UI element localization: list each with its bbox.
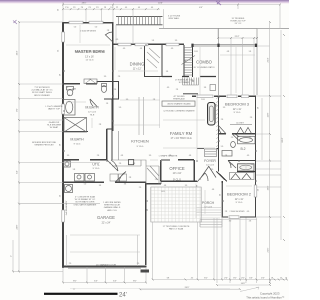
purple corner mark bbox=[13, 1, 221, 24]
svg-text:2'6: 2'6 bbox=[109, 163, 111, 165]
svg-text:14'6": 14'6" bbox=[241, 283, 246, 285]
svg-text:3'6: 3'6 bbox=[258, 107, 260, 109]
svg-text:VENEER PER ELEV: VENEER PER ELEV bbox=[34, 145, 54, 147]
svg-text:B.2: B.2 bbox=[240, 147, 245, 151]
svg-text:2'8: 2'8 bbox=[133, 163, 135, 165]
bath2 toilet and vanity bbox=[222, 142, 235, 157]
bedroom3 bottom wall bbox=[219, 133, 256, 135]
dim bottom line mid bbox=[140, 288, 240, 290]
svg-text:12'8": 12'8" bbox=[268, 112, 270, 117]
porch deck lines bbox=[196, 184, 221, 219]
wire: mbath guides bbox=[66, 102, 92, 128]
wire: combo right edge bbox=[256, 29, 258, 96]
bath2 right wall bbox=[254, 134, 256, 160]
dim left extension horizontals bbox=[19, 22, 100, 272]
svg-text:BEDROOM 2: BEDROOM 2 bbox=[227, 192, 252, 197]
svg-text:3'0: 3'0 bbox=[104, 76, 106, 78]
svg-text:CLOSET: CLOSET bbox=[236, 123, 245, 125]
wire: foyer top wall bbox=[197, 148, 219, 150]
svg-text:3'4: 3'4 bbox=[99, 185, 101, 187]
wire: master right wall going down bbox=[112, 22, 114, 131]
svg-text:6'8: 6'8 bbox=[227, 51, 229, 53]
wire: dining top wall bbox=[113, 43, 185, 45]
svg-text:9' CLG: 9' CLG bbox=[236, 202, 243, 204]
svg-text:4'0: 4'0 bbox=[151, 7, 153, 9]
stairs hatch top middle bbox=[116, 17, 163, 25]
wire: dining guides bbox=[115, 47, 158, 71]
wire: family guides h bbox=[150, 120, 215, 160]
svg-text:12' CLG: 12' CLG bbox=[206, 165, 214, 167]
svg-text:3'6: 3'6 bbox=[204, 87, 206, 89]
svg-text:3'0: 3'0 bbox=[58, 9, 60, 11]
svg-text:BRG WALL: BRG WALL bbox=[169, 17, 181, 20]
svg-text:4x6 BEAM ABV: 4x6 BEAM ABV bbox=[65, 200, 68, 215]
svg-text:4'0: 4'0 bbox=[171, 48, 173, 50]
svg-text:24'0": 24'0" bbox=[185, 287, 190, 289]
svg-text:3'0: 3'0 bbox=[185, 185, 187, 187]
svg-text:1 HR FIRE RATED: 1 HR FIRE RATED bbox=[103, 201, 121, 204]
wire: pantry bottom wall bbox=[144, 76, 162, 78]
svg-text:BRICK VENEER: BRICK VENEER bbox=[34, 95, 50, 97]
svg-text:8'0": 8'0" bbox=[133, 281, 137, 283]
svg-text:2'0: 2'0 bbox=[280, 278, 282, 280]
svg-text:4'0: 4'0 bbox=[167, 87, 169, 89]
svg-text:6'4": 6'4" bbox=[113, 281, 117, 283]
svg-text:3'0": 3'0" bbox=[233, 278, 237, 280]
svg-text:1'6: 1'6 bbox=[285, 278, 287, 280]
svg-text:12' x 11': 12' x 11' bbox=[233, 108, 242, 111]
wire: family rm guide vertical 2 bbox=[197, 47, 200, 160]
svg-text:5'4: 5'4 bbox=[249, 51, 251, 53]
window bedroom3 top bbox=[227, 95, 237, 98]
svg-text:44'6": 44'6" bbox=[158, 2, 163, 4]
svg-text:GARAGE WALLS: GARAGE WALLS bbox=[104, 206, 121, 209]
svg-text:24" OC: 24" OC bbox=[235, 23, 242, 25]
svg-text:2'8: 2'8 bbox=[88, 7, 90, 9]
wire: bed2 south overhang bbox=[222, 218, 257, 220]
svg-text:W/ SEAT: W/ SEAT bbox=[50, 126, 59, 129]
foyer wall hatch bbox=[216, 97, 218, 151]
door master entry bbox=[105, 32, 113, 42]
svg-text:4'0: 4'0 bbox=[231, 164, 233, 166]
bedroom2 bottom wall bbox=[222, 216, 256, 218]
svg-text:2'8: 2'8 bbox=[73, 7, 75, 9]
svg-text:12' x 11': 12' x 11' bbox=[235, 198, 244, 201]
svg-text:2'2: 2'2 bbox=[116, 7, 118, 9]
svg-text:4" CONCRETE SLAB: 4" CONCRETE SLAB bbox=[75, 196, 96, 199]
dim garage internal bbox=[67, 235, 138, 266]
window bedroom2 bottom bbox=[229, 216, 239, 219]
svg-text:19'0": 19'0" bbox=[268, 185, 270, 190]
kitchen oven box bbox=[129, 160, 134, 165]
svg-text:M.BATH: M.BATH bbox=[70, 138, 84, 142]
svg-text:3'0: 3'0 bbox=[211, 169, 213, 171]
svg-text:SHEETROCK AT: SHEETROCK AT bbox=[104, 204, 121, 207]
svg-text:2'8: 2'8 bbox=[199, 179, 201, 181]
svg-text:24'8": 24'8" bbox=[17, 224, 19, 229]
window master top 2 bbox=[89, 21, 103, 24]
svg-text:4'0: 4'0 bbox=[247, 155, 249, 157]
washer dryer in util bbox=[75, 174, 95, 182]
svg-text:24': 24' bbox=[119, 292, 127, 298]
svg-text:BEDROOM 3: BEDROOM 3 bbox=[225, 102, 250, 107]
svg-text:2'8: 2'8 bbox=[99, 124, 101, 126]
door util to garage bbox=[115, 172, 126, 183]
wire: garage bottom wall bbox=[62, 266, 146, 268]
rotated left tiny dims bbox=[58, 9, 260, 211]
door bedroom2 bbox=[228, 161, 236, 169]
svg-text:3'6: 3'6 bbox=[60, 74, 62, 76]
bedroom2 right wall bbox=[254, 160, 256, 218]
svg-text:2'0: 2'0 bbox=[231, 137, 233, 139]
svg-text:8'0": 8'0" bbox=[73, 281, 77, 283]
svg-text:L 19x75 GRANITE: L 19x75 GRANITE bbox=[45, 105, 63, 108]
svg-text:FAMILY RM: FAMILY RM bbox=[170, 131, 193, 136]
svg-text:2'8: 2'8 bbox=[153, 99, 155, 101]
svg-text:1'8: 1'8 bbox=[68, 95, 70, 97]
dim top right line bbox=[218, 37, 257, 39]
svg-text:4'0: 4'0 bbox=[60, 195, 62, 197]
svg-text:FOYER: FOYER bbox=[204, 159, 216, 163]
fireplace bbox=[208, 103, 215, 126]
svg-text:AND CLG: AND CLG bbox=[107, 209, 117, 212]
bedroom2 top wall bbox=[228, 160, 256, 162]
door front entry bbox=[197, 173, 208, 182]
svg-text:5'0: 5'0 bbox=[115, 166, 117, 168]
svg-text:3'0: 3'0 bbox=[223, 107, 225, 109]
svg-text:FIREPLACE: FIREPLACE bbox=[173, 98, 185, 101]
svg-text:KITCHEN: KITCHEN bbox=[131, 139, 149, 144]
svg-text:10' x 10': 10' x 10' bbox=[173, 172, 182, 175]
window mbath left bbox=[62, 104, 65, 114]
svg-text:2'0: 2'0 bbox=[89, 79, 91, 81]
svg-text:M.BATH: M.BATH bbox=[85, 106, 99, 110]
svg-text:6'4": 6'4" bbox=[94, 281, 98, 283]
window family north sliding bbox=[197, 95, 213, 98]
svg-text:5'0: 5'0 bbox=[74, 27, 76, 29]
dim right vertical 3 bbox=[261, 98, 263, 160]
svg-text:6'0: 6'0 bbox=[247, 211, 249, 213]
svg-text:2 6040 SH WDWS: 2 6040 SH WDWS bbox=[80, 31, 96, 33]
dim bottom line right bbox=[153, 279, 287, 281]
svg-text:48x96 GRANITE ISLAND: 48x96 GRANITE ISLAND bbox=[167, 103, 191, 106]
svg-text:6'4": 6'4" bbox=[17, 170, 19, 174]
dim garage verticals bbox=[63, 267, 146, 283]
svg-text:3'0: 3'0 bbox=[175, 40, 177, 42]
wire: combo left edge bbox=[218, 29, 220, 96]
svg-text:4'0: 4'0 bbox=[125, 7, 127, 9]
wc left toilet bbox=[67, 87, 74, 96]
wire: patio beam edge bbox=[192, 45, 257, 46]
svg-text:2'0: 2'0 bbox=[66, 87, 68, 89]
svg-text:3'0: 3'0 bbox=[229, 221, 231, 223]
svg-text:GLASS DR: GLASS DR bbox=[49, 121, 60, 124]
wire: foyer right wall stub bbox=[194, 180, 197, 182]
svg-text:BOTH WAYS OVER: BOTH WAYS OVER bbox=[76, 201, 95, 204]
pantry shelves diagonals bbox=[147, 48, 160, 68]
family north wall long bbox=[162, 76, 216, 78]
svg-text:2'8: 2'8 bbox=[96, 7, 98, 9]
svg-text:5'4: 5'4 bbox=[152, 40, 154, 42]
svg-text:4'6": 4'6" bbox=[261, 278, 265, 280]
svg-text:This artistic board of Hamilto: This artistic board of Hamilton™ bbox=[246, 296, 285, 300]
bed2 entry tub niche bbox=[237, 164, 255, 172]
window dining top 1 bbox=[118, 43, 131, 46]
wire: garage door line bbox=[68, 267, 141, 269]
svg-text:GARAGE: GARAGE bbox=[97, 215, 115, 220]
dim bottom line right2 bbox=[217, 284, 270, 286]
stairs lower landing treads bbox=[183, 78, 199, 86]
svg-text:2 3040 SH WDWS: 2 3040 SH WDWS bbox=[230, 211, 246, 213]
util landing steps bbox=[110, 174, 127, 181]
svg-text:13' x 16': 13' x 16' bbox=[85, 56, 94, 59]
svg-text:9' CLG: 9' CLG bbox=[137, 146, 144, 148]
dim bottom line garage bbox=[63, 282, 146, 284]
svg-text:4'2: 4'2 bbox=[191, 278, 193, 280]
porch front steps bbox=[200, 220, 222, 228]
svg-text:14'0: 14'0 bbox=[161, 191, 165, 193]
scale bar bbox=[44, 293, 118, 295]
svg-text:2'8: 2'8 bbox=[60, 144, 62, 146]
scale tick bbox=[70, 288, 230, 290]
svg-text:12' CLG: 12' CLG bbox=[88, 112, 96, 114]
svg-text:MASTER BDRM: MASTER BDRM bbox=[75, 49, 105, 54]
svg-text:4'4: 4'4 bbox=[138, 7, 140, 9]
dim right vertical 2 bbox=[280, 30, 282, 240]
svg-text:12' CLG: 12' CLG bbox=[86, 60, 94, 62]
wire: kitchen nook wall jog bbox=[107, 129, 113, 160]
svg-text:2'8: 2'8 bbox=[169, 155, 171, 157]
svg-text:OFFICE: OFFICE bbox=[169, 166, 185, 171]
foyer angled wall bbox=[217, 172, 228, 182]
svg-text:5'0: 5'0 bbox=[221, 146, 223, 148]
svg-text:2'6: 2'6 bbox=[118, 76, 120, 78]
door bath2 bbox=[232, 134, 239, 141]
svg-text:10 TREADS: 10 TREADS bbox=[179, 81, 191, 84]
dim left vertical line bbox=[18, 22, 20, 272]
stairs middle vertical flight bbox=[182, 45, 196, 77]
svg-text:DINING: DINING bbox=[130, 61, 145, 66]
window bed2 right bbox=[254, 185, 257, 197]
svg-text:22'4": 22'4" bbox=[268, 57, 270, 62]
svg-text:5'0: 5'0 bbox=[84, 184, 86, 186]
bedroom3 left wall bbox=[218, 96, 220, 134]
wire: garage right wall bbox=[145, 182, 147, 265]
niche box bbox=[210, 85, 216, 91]
door util to kitchen bbox=[107, 160, 118, 171]
svg-text:2x4 WALLS AT 16" OC: 2x4 WALLS AT 16" OC bbox=[31, 89, 53, 92]
svg-text:3'4": 3'4" bbox=[249, 278, 253, 280]
wire: eave line lower bbox=[159, 27, 289, 29]
svg-text:9' CLG: 9' CLG bbox=[93, 168, 100, 170]
window dining top 2 bbox=[135, 43, 148, 46]
svg-text:17' x 19' TRAY CLG: 17' x 19' TRAY CLG bbox=[170, 137, 191, 140]
svg-text:9' CLG: 9' CLG bbox=[173, 178, 181, 182]
bedroom3 right wall bbox=[254, 96, 256, 134]
office room walls bbox=[161, 160, 194, 182]
svg-text:TILE: TILE bbox=[90, 114, 95, 116]
svg-text:2'8: 2'8 bbox=[81, 7, 83, 9]
svg-text:TUB: TUB bbox=[72, 89, 77, 91]
svg-text:6'8: 6'8 bbox=[167, 278, 169, 280]
dim top extension verticals bbox=[63, 2, 280, 95]
svg-text:PATIO 4" SLAB: PATIO 4" SLAB bbox=[169, 228, 184, 231]
bedroom2 closet bifold doors bbox=[230, 173, 255, 180]
svg-text:1'10: 1'10 bbox=[65, 7, 68, 9]
wire: wc room walls bbox=[97, 82, 119, 100]
svg-text:9' CLG: 9' CLG bbox=[234, 112, 241, 114]
svg-text:5'8: 5'8 bbox=[73, 169, 75, 171]
dim top line 1 bbox=[63, 4, 280, 6]
wire: mbath-kitchen divider wall bbox=[111, 99, 113, 160]
util freezer box bbox=[64, 161, 71, 167]
bedroom2 left wall lower bbox=[221, 181, 223, 218]
svg-text:9' CLG: 9' CLG bbox=[74, 144, 81, 146]
kitchen island bbox=[162, 101, 195, 106]
svg-text:6'0: 6'0 bbox=[116, 39, 118, 41]
wire: pantry right wall bbox=[161, 44, 163, 77]
wire: combo guides bbox=[220, 47, 255, 93]
wire: util top wall bbox=[63, 159, 107, 161]
foyer coat closet bbox=[205, 149, 217, 157]
svg-text:4'4: 4'4 bbox=[140, 48, 142, 50]
wire: kitchen guide bbox=[113, 100, 160, 125]
svg-text:3'6: 3'6 bbox=[124, 184, 126, 186]
mbath vanity bbox=[84, 79, 97, 84]
svg-text:2'8: 2'8 bbox=[225, 155, 227, 157]
wire: mbath2 lower wall bbox=[63, 131, 88, 133]
porch textured concrete grid bbox=[151, 187, 201, 222]
svg-text:22' x 24': 22' x 24' bbox=[102, 222, 111, 225]
svg-text:4'6: 4'6 bbox=[212, 189, 214, 191]
svg-text:28'0": 28'0" bbox=[82, 3, 87, 5]
svg-text:2'6: 2'6 bbox=[119, 163, 121, 165]
svg-text:5'0: 5'0 bbox=[119, 107, 121, 109]
wire: pantry left wall bbox=[144, 44, 146, 77]
svg-text:PORCH: PORCH bbox=[202, 201, 215, 205]
wire: master guides bbox=[66, 25, 110, 45]
front door double swing bbox=[201, 166, 216, 178]
wire: family rm guide vertical 1 bbox=[159, 77, 161, 128]
svg-text:4'6: 4'6 bbox=[189, 155, 191, 157]
wire: foyer-bath wall bbox=[218, 134, 220, 172]
svg-text:2'4: 2'4 bbox=[176, 89, 178, 91]
svg-text:2'0: 2'0 bbox=[139, 187, 141, 189]
svg-text:2'8: 2'8 bbox=[129, 177, 131, 179]
svg-text:5'0: 5'0 bbox=[216, 104, 218, 106]
door mbath bbox=[90, 99, 98, 107]
svg-text:2'6: 2'6 bbox=[97, 155, 99, 157]
wire: master top wall bbox=[62, 22, 113, 24]
svg-text:20' COVERED PATIO: 20' COVERED PATIO bbox=[193, 66, 214, 69]
svg-text:2'6: 2'6 bbox=[250, 117, 252, 119]
svg-text:10'0: 10'0 bbox=[194, 51, 198, 53]
wire: garage guide h bbox=[70, 235, 140, 252]
svg-text:12 ROUND CORNERS GRANITE: 12 ROUND CORNERS GRANITE bbox=[163, 110, 195, 113]
window dining top 3 bbox=[166, 43, 179, 46]
dim bottom verticals bbox=[153, 218, 270, 284]
svg-text:3'0: 3'0 bbox=[67, 155, 69, 157]
svg-text:3'0: 3'0 bbox=[149, 155, 151, 157]
svg-text:5'0": 5'0" bbox=[204, 278, 208, 280]
window master left bbox=[62, 32, 65, 42]
svg-text:2'0": 2'0" bbox=[241, 278, 245, 280]
wire: porch right edge bbox=[197, 183, 222, 217]
patio posts bbox=[193, 44, 257, 47]
svg-text:19'4": 19'4" bbox=[17, 50, 19, 55]
window garage left bbox=[62, 210, 65, 222]
svg-text:2'8: 2'8 bbox=[225, 211, 227, 213]
svg-text:COMBO: COMBO bbox=[196, 60, 213, 65]
svg-text:2'6: 2'6 bbox=[114, 89, 116, 91]
wire: porch guides bbox=[200, 190, 220, 218]
svg-text:12' CLG: 12' CLG bbox=[204, 207, 212, 209]
svg-text:21'6": 21'6" bbox=[268, 247, 270, 252]
svg-text:3'0: 3'0 bbox=[126, 99, 128, 101]
svg-text:2'0: 2'0 bbox=[155, 179, 157, 181]
dim top line 2 bbox=[63, 8, 160, 10]
svg-text:1'6: 1'6 bbox=[110, 7, 112, 9]
svg-text:3'6: 3'6 bbox=[251, 164, 253, 166]
garage corner step blob bbox=[141, 270, 150, 273]
svg-text:22'4": 22'4" bbox=[235, 36, 240, 38]
door bedroom3 bbox=[218, 125, 226, 134]
svg-text:VANITY TOP: VANITY TOP bbox=[48, 108, 61, 111]
window master top 1 bbox=[69, 21, 83, 24]
svg-text:3'6: 3'6 bbox=[166, 71, 168, 73]
svg-text:1'6: 1'6 bbox=[106, 103, 108, 105]
master shower bbox=[64, 118, 87, 133]
svg-text:16' GARAGE DOOR: 16' GARAGE DOOR bbox=[96, 264, 116, 267]
wire: closet wall between master and mbath bbox=[63, 83, 97, 85]
svg-text:5'4: 5'4 bbox=[58, 50, 60, 52]
svg-text:4'0: 4'0 bbox=[258, 189, 260, 191]
bedroom3 closet bifold doors bbox=[230, 125, 252, 134]
svg-text:3'0: 3'0 bbox=[220, 194, 222, 196]
svg-text:1'8: 1'8 bbox=[271, 278, 273, 280]
svg-text:W/ #3 REBAR 18" OC: W/ #3 REBAR 18" OC bbox=[75, 198, 96, 201]
wire: bed2 guides bbox=[226, 163, 252, 186]
svg-text:10'0: 10'0 bbox=[201, 99, 205, 101]
svg-text:2'8: 2'8 bbox=[104, 7, 106, 9]
svg-text:W/ R-13 BATT INSUL: W/ R-13 BATT INSUL bbox=[32, 91, 53, 94]
svg-text:6'0: 6'0 bbox=[147, 209, 149, 211]
svg-text:Copyright 2023: Copyright 2023 bbox=[260, 292, 280, 296]
svg-text:2'6: 2'6 bbox=[249, 221, 251, 223]
svg-text:5'0: 5'0 bbox=[95, 27, 97, 29]
wire: family room south wall bbox=[146, 183, 161, 185]
bath2 tub bbox=[238, 136, 256, 144]
wc toilet bbox=[101, 84, 106, 93]
dim right extension horizontals bbox=[256, 29, 281, 218]
svg-text:2'6": 2'6" bbox=[224, 278, 228, 280]
svg-text:3'0: 3'0 bbox=[249, 137, 251, 139]
wire: util-garage wall bbox=[63, 181, 146, 183]
svg-text:2'8: 2'8 bbox=[107, 30, 109, 32]
cased opening dash bbox=[183, 93, 198, 95]
copyright leader diagonal bbox=[240, 287, 259, 292]
water heater bbox=[65, 185, 73, 193]
wire: north wall family/bed3 under combo bbox=[192, 95, 256, 97]
svg-text:6'4: 6'4 bbox=[121, 155, 123, 157]
svg-text:2'0: 2'0 bbox=[137, 263, 139, 265]
svg-text:4'6: 4'6 bbox=[164, 185, 166, 187]
svg-text:2'6: 2'6 bbox=[221, 119, 223, 121]
master bath tub bbox=[64, 100, 76, 116]
svg-text:2'0: 2'0 bbox=[69, 263, 71, 265]
svg-text:4'0: 4'0 bbox=[123, 48, 125, 50]
dim right vertical 1 bbox=[269, 22, 271, 283]
